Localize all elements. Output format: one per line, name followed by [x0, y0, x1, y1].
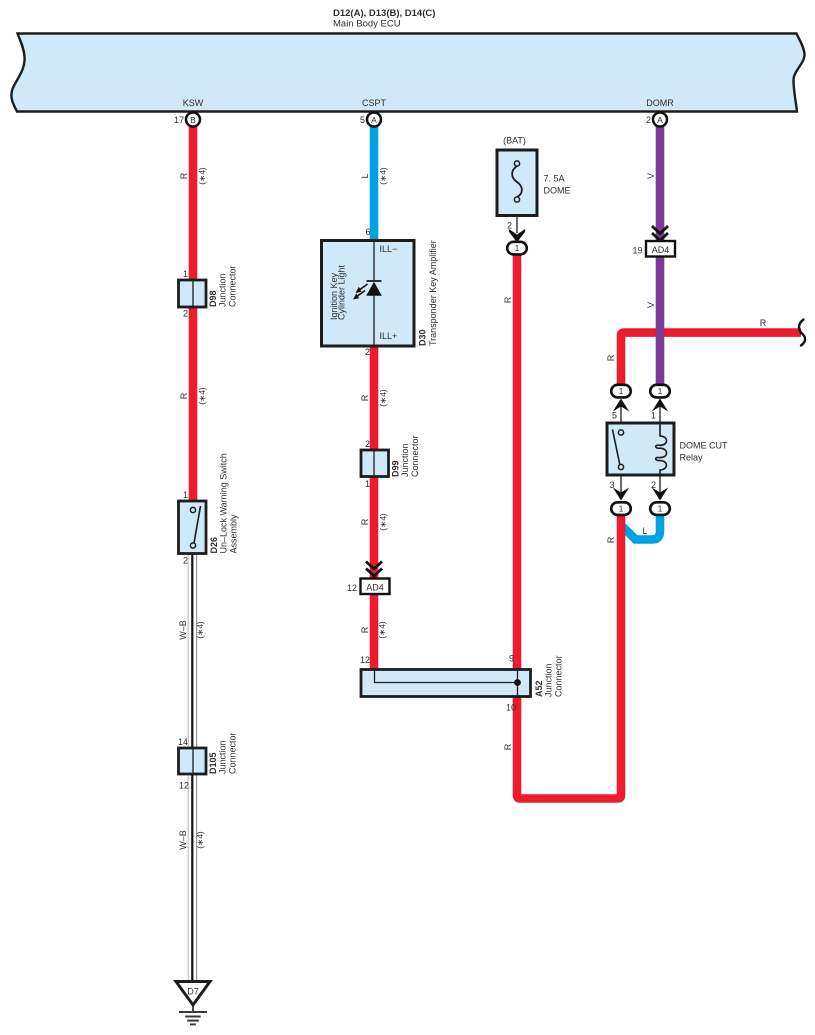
ground D7 [176, 982, 210, 1025]
Main Body ECU band [11, 34, 804, 112]
wire L from CSPT pin 5 to D30 [370, 124, 379, 242]
wire W-B from D26 to ground D7 [188, 553, 196, 981]
svg-text:Connector: Connector [554, 655, 564, 697]
svg-text:R: R [179, 392, 189, 399]
svg-text:Junction: Junction [218, 273, 228, 307]
fuse pin 2 lead [507, 216, 527, 255]
svg-text:1: 1 [651, 411, 656, 421]
svg-text:ILL+: ILL+ [380, 331, 398, 341]
svg-text:1: 1 [183, 269, 188, 279]
svg-text:2: 2 [365, 347, 370, 357]
wire L elbow from relay pin 2 [621, 510, 661, 540]
ECU pin 5 circle A [360, 113, 381, 127]
junction connector A52 [360, 654, 564, 713]
svg-text:(BAT): (BAT) [503, 136, 526, 146]
svg-text:Connector: Connector [410, 435, 420, 477]
page-break squiggle [799, 320, 805, 346]
relay pin 1 lead with up arrow [651, 399, 668, 424]
svg-text:(∗4): (∗4) [377, 621, 387, 639]
svg-text:Assembly: Assembly [229, 514, 239, 554]
svg-text:V: V [646, 173, 656, 179]
svg-text:1: 1 [183, 490, 188, 500]
svg-text:Junction: Junction [544, 663, 554, 697]
svg-text:R: R [360, 394, 370, 401]
svg-text:ILL−: ILL− [380, 244, 398, 254]
svg-text:W–B: W–B [178, 620, 188, 640]
svg-text:Junction: Junction [218, 740, 228, 774]
wire R from D30 pin 2 to A52 pin 12 [370, 346, 379, 670]
arrow into connector 1 [509, 229, 525, 243]
svg-text:1: 1 [365, 479, 370, 489]
relay pin 2 lead with down arrow [651, 475, 668, 501]
svg-text:L: L [360, 173, 370, 178]
LED Ignition Key Cylinder Light [367, 280, 382, 282]
svg-text:R: R [503, 743, 513, 750]
svg-text:6: 6 [365, 227, 370, 237]
svg-text:V: V [646, 302, 656, 308]
svg-text:(∗4): (∗4) [378, 389, 388, 407]
svg-text:2: 2 [183, 556, 188, 566]
svg-text:Cylinder Light: Cylinder Light [337, 264, 347, 320]
svg-text:17: 17 [174, 115, 184, 125]
relay pin 5 lead with up arrow [612, 399, 629, 424]
svg-text:1: 1 [515, 243, 520, 253]
svg-text:D105: D105 [208, 752, 218, 774]
svg-text:Transponder Key Amplifier: Transponder Key Amplifier [428, 240, 438, 346]
wire V from DOMR pin 2 to relay connector oval [656, 124, 665, 386]
relay connector ovals bottom [611, 502, 631, 515]
svg-text:2: 2 [507, 221, 512, 231]
svg-text:R: R [760, 318, 767, 328]
svg-text:1: 1 [658, 504, 663, 514]
connector arrow AD4 pin 12 [347, 562, 390, 595]
svg-text:DOMR: DOMR [646, 98, 674, 108]
svg-text:R: R [179, 172, 189, 179]
svg-text:(∗4): (∗4) [195, 831, 205, 849]
connector arrow AD4 pin 19 [632, 226, 675, 257]
svg-text:19: 19 [632, 246, 642, 256]
svg-text:7. 5A: 7. 5A [544, 174, 565, 184]
svg-text:W–B: W–B [178, 830, 188, 850]
svg-text:A52: A52 [534, 680, 544, 697]
svg-text:R: R [360, 626, 370, 633]
svg-text:A: A [371, 115, 377, 125]
svg-text:1: 1 [658, 386, 663, 396]
svg-text:14: 14 [178, 737, 188, 747]
svg-text:D99: D99 [391, 460, 401, 477]
svg-text:AD4: AD4 [652, 245, 670, 255]
svg-text:Un–Lock Warning Switch: Un–Lock Warning Switch [219, 453, 229, 553]
svg-text:R: R [606, 536, 616, 543]
svg-text:3: 3 [609, 480, 614, 490]
svg-text:(∗4): (∗4) [195, 621, 205, 639]
svg-text:DOME: DOME [544, 186, 571, 196]
svg-text:Connector: Connector [228, 732, 238, 774]
svg-text:D98: D98 [208, 290, 218, 307]
svg-text:D12(A), D13(B), D14(C): D12(A), D13(B), D14(C) [333, 8, 435, 19]
svg-text:B: B [190, 115, 196, 125]
svg-text:KSW: KSW [183, 98, 204, 108]
svg-text:12: 12 [347, 583, 357, 593]
svg-text:AD4: AD4 [366, 583, 384, 593]
ECU pin 2 circle A [646, 113, 667, 127]
svg-text:12: 12 [179, 781, 189, 791]
svg-text:1: 1 [619, 504, 624, 514]
svg-text:1: 1 [619, 386, 624, 396]
junction dot A52 [514, 679, 521, 686]
svg-text:12: 12 [360, 655, 370, 665]
svg-text:2: 2 [365, 439, 370, 449]
svg-text:Relay: Relay [680, 453, 704, 463]
svg-text:Main Body ECU: Main Body ECU [333, 19, 401, 30]
relay coil [656, 425, 667, 475]
connector oval 1 [507, 242, 527, 255]
svg-text:5: 5 [612, 411, 617, 421]
wire R from fuse through A52 pins 9/10 to relay pin 3 [517, 254, 621, 799]
relay pin 3 lead with down arrow [609, 475, 629, 501]
svg-text:(∗4): (∗4) [378, 167, 388, 185]
junction connector D98 [179, 265, 238, 318]
svg-text:9: 9 [509, 654, 514, 664]
transponder key amplifier D30 [322, 227, 439, 357]
svg-text:5: 5 [360, 115, 365, 125]
svg-text:(∗4): (∗4) [197, 387, 207, 405]
svg-text:R: R [360, 518, 370, 525]
svg-text:D7: D7 [187, 987, 199, 997]
svg-text:D26: D26 [209, 537, 219, 554]
svg-text:CSPT: CSPT [362, 98, 387, 108]
svg-text:R: R [503, 296, 513, 303]
svg-text:(∗4): (∗4) [378, 513, 388, 531]
junction connector D105 [178, 732, 238, 790]
DOME CUT relay [607, 423, 728, 475]
relay connector ovals top [611, 385, 631, 398]
svg-text:A: A [657, 115, 663, 125]
svg-text:2: 2 [183, 309, 188, 319]
svg-text:L: L [642, 526, 647, 536]
svg-text:(∗4): (∗4) [197, 167, 207, 185]
ECU pin 17 circle B [174, 113, 200, 127]
svg-text:Connector: Connector [228, 265, 238, 307]
wire R from KSW pin 17 to D26 [189, 124, 198, 502]
fuse 7.5A DOME [497, 136, 571, 216]
wire R from relay pin 5 to page break [621, 333, 801, 386]
junction connector D99 [361, 435, 420, 489]
svg-text:R: R [606, 354, 616, 361]
svg-text:Junction: Junction [400, 443, 410, 477]
svg-text:D30: D30 [418, 329, 428, 346]
svg-text:2: 2 [651, 480, 656, 490]
un-lock warning switch D26 [179, 453, 239, 565]
svg-text:DOME CUT: DOME CUT [680, 441, 728, 451]
svg-text:2: 2 [646, 115, 651, 125]
svg-text:10: 10 [506, 703, 516, 713]
